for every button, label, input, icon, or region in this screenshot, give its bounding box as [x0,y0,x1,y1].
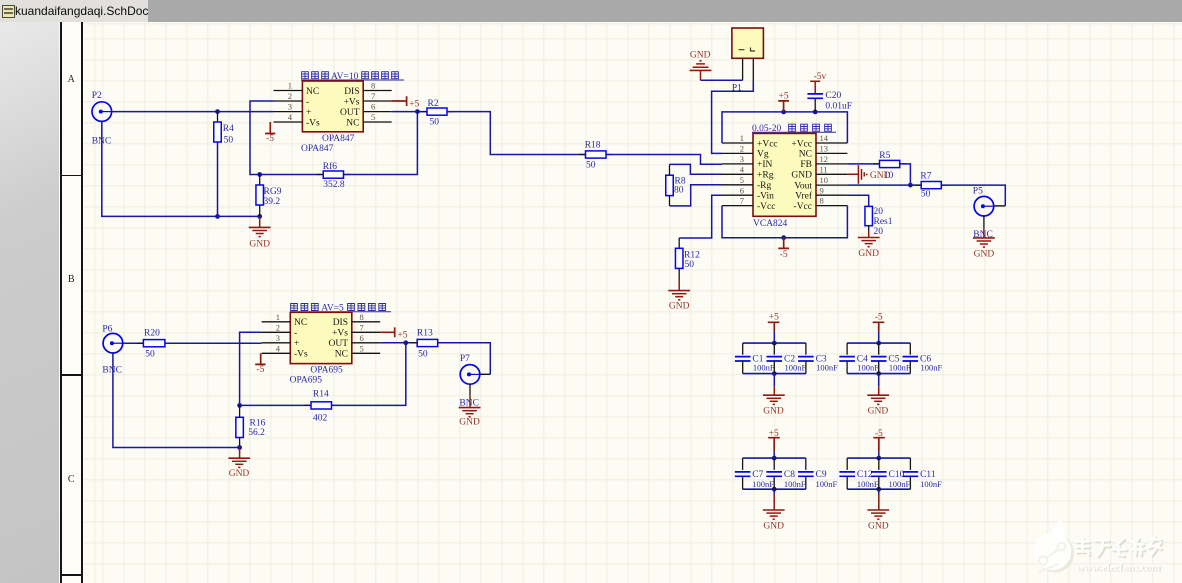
wire R8 bottom to -Rg [670,185,723,206]
U1 pin 5 [346,112,391,128]
wire cap group A rails [743,341,806,376]
capacitor C4 [839,343,879,374]
svg-text:R2: R2 [428,99,439,109]
wire R14 to OUT riser [332,343,406,406]
resistor R18 [579,141,613,171]
resistor R4 [214,112,234,146]
connector P7 BNC [460,365,480,385]
resistor R2 [421,99,454,128]
svg-text:+Vs: +Vs [332,329,348,339]
capacitor C3 [798,343,838,374]
svg-text:352.8: 352.8 [323,180,345,190]
svg-text:-: - [294,329,297,339]
svg-text:100nF: 100nF [889,479,911,489]
svg-text:5: 5 [740,175,744,185]
svg-text:+Vcc: +Vcc [757,139,778,149]
wire Rf6 to feedback riser [344,112,418,175]
U1 pin 2 [274,91,310,107]
ground GND under P7 [459,408,481,428]
wire GND to P1 pin [701,79,743,81]
svg-text:100nF: 100nF [784,479,806,489]
svg-text:10: 10 [820,175,829,185]
zone letter B [62,274,82,285]
svg-text:2: 2 [740,144,744,154]
junction R16 bottom [237,445,242,450]
ground GND cap group C [763,489,785,531]
wire R20 to U3 pin 3 [165,342,262,344]
svg-text:+5: +5 [409,100,419,110]
connector P5 BNC [974,196,994,216]
svg-text:GND: GND [858,249,879,259]
svg-text:-Vcc: -Vcc [794,202,812,212]
svg-text:7: 7 [371,91,375,101]
svg-text:80: 80 [674,186,684,196]
U2 pin 8 [794,196,848,212]
svg-text:NC: NC [799,150,812,160]
P7 ground stem [469,384,471,407]
zone letter A [62,74,82,85]
power -5 at U1 pin 4 [265,122,275,144]
svg-text:GND: GND [459,418,480,428]
wire R7 to P5 [941,185,1005,206]
wire R5 to Vout node [900,164,911,185]
svg-text:OPA847: OPA847 [301,144,334,154]
svg-text:50: 50 [586,161,596,171]
resistor R13 [411,328,445,359]
wire R18 to U2 +IN [606,155,722,165]
svg-text:RG9: RG9 [264,187,282,197]
U1 pin 4 [274,112,321,128]
svg-text:100nF: 100nF [921,362,943,372]
power +5 at U3 pin 7 [380,327,408,340]
svg-text:8: 8 [360,312,364,322]
svg-text:-5: -5 [780,250,788,260]
svg-text:R16: R16 [250,418,266,428]
U2 pin 10 [794,175,847,191]
P5 ground stem [983,216,985,238]
junction -5 tap [781,235,786,240]
svg-text:7: 7 [360,322,364,332]
ground GND cap group A [763,374,785,417]
power -5 cap group D [873,429,885,458]
svg-text:4: 4 [740,164,745,174]
svg-text:-Vs: -Vs [294,350,308,360]
svg-text:+5: +5 [779,92,789,102]
svg-text:GND: GND [669,302,690,312]
svg-text:+: + [294,339,299,349]
svg-text:-Rg: -Rg [757,181,772,191]
svg-text:-: - [306,97,309,107]
junction R14 left [237,403,242,408]
U2 pin 7 [722,196,775,212]
U3 pin 3 [262,333,300,349]
svg-text:OPA695: OPA695 [290,376,323,386]
resistor R12 [675,238,700,270]
wire cap group D rails [847,456,910,492]
power -5 below U2 [778,238,789,260]
svg-text:Vout: Vout [794,181,812,191]
U1 pin 3 [274,102,312,118]
junction bottom rail RG9 [257,214,262,219]
svg-text:1: 1 [740,133,744,143]
U2 pin 2 [722,144,769,160]
svg-text:R14: R14 [313,390,329,400]
wire cap group B rails [847,341,910,376]
connector P1 [732,28,764,58]
connector P2 BNC [92,102,112,122]
svg-text:50: 50 [145,350,155,360]
resistor R20 [137,328,172,359]
wire R8 top to +Rg [670,164,723,174]
svg-text:-5: -5 [875,313,883,323]
resistor R14 [305,390,339,424]
svg-text:50: 50 [430,118,440,128]
wire +Vcc top rail [722,112,847,143]
svg-text:3: 3 [276,333,280,343]
svg-text:50: 50 [921,190,931,200]
svg-text:4: 4 [276,343,281,353]
svg-text:BNC: BNC [459,398,479,408]
junction bottom rail R4 [215,214,220,219]
svg-text:6: 6 [740,185,744,195]
U2 pin 14 [791,133,847,149]
wire -Vin to R12 [679,195,722,238]
ground GND flipped at P1 [690,50,712,80]
wire P1 to U2 Vg [712,81,754,153]
zone divider A/B [60,175,83,177]
svg-text:NC: NC [335,350,348,360]
wire Vout to R7 [847,184,921,186]
svg-text:-5v: -5v [814,72,827,82]
U2 pin 6 [722,185,774,201]
wire R2 to R18 [447,112,586,155]
svg-text:-Vcc: -Vcc [757,202,775,212]
svg-text:GND: GND [791,171,812,181]
capacitor C8 [766,458,806,489]
svg-text:+Vs: +Vs [344,97,360,107]
power -5 at U3 pin 4 [255,353,265,375]
svg-text:R7: R7 [920,172,931,182]
svg-text:7: 7 [740,196,744,206]
svg-text:6: 6 [360,333,364,343]
svg-text:OUT: OUT [340,108,360,118]
wire R4 to bottom rail [217,142,219,216]
title VCA gain (0.05-20倍压控增益) [752,124,836,134]
tab bar [0,0,1182,22]
svg-text:OPA695: OPA695 [310,365,343,375]
resistor R16 [236,405,266,447]
zone letter C [62,474,82,485]
svg-text:GND: GND [868,521,889,531]
ground GND at U2 pin 11 [847,165,890,184]
svg-text:P2: P2 [92,91,102,101]
svg-text:-5: -5 [266,134,274,144]
svg-text:R13: R13 [417,328,433,338]
svg-text:56.2: 56.2 [248,428,265,438]
wire Vref to Res1 [847,195,868,206]
document icon [2,5,15,18]
svg-text:+5: +5 [769,313,779,323]
wire P2 to U1 pin 3 [112,111,274,113]
svg-text:3: 3 [740,154,744,164]
svg-text:GND: GND [690,50,711,60]
svg-text:100nF: 100nF [920,479,942,489]
watermark text dianzifashaoyou (电子发烧友) [1078,538,1162,557]
connector P6 BNC [103,333,123,353]
junction OUT node [415,109,420,114]
amplifier U2 VCA824 body [753,133,816,216]
svg-text:GND: GND [870,171,891,181]
svg-text:Rf6: Rf6 [323,161,338,172]
svg-text:1: 1 [276,312,280,322]
svg-text:8: 8 [371,81,375,91]
svg-text:100nF: 100nF [753,362,775,372]
svg-text:-Vs: -Vs [306,118,320,128]
capacitor C10 [871,458,911,489]
wire U3 pin2 feedback drop [240,332,262,405]
svg-text:-Vin: -Vin [757,192,774,202]
svg-text:FB: FB [800,160,812,170]
title input stage AV=10 (输入级AV=10固定增益) [301,72,404,82]
op-amp U3 OPA695 body [290,312,352,363]
svg-text:100nF: 100nF [752,479,774,489]
U2 pin 3 [722,154,773,170]
svg-text:Vref: Vref [795,191,813,202]
U3 pin 5 [335,343,380,359]
junction OUT node U3 [403,340,408,345]
svg-text:NC: NC [294,318,307,328]
capacitor C5 [871,343,911,374]
svg-text:+5: +5 [397,331,407,341]
junction C20 tap [813,110,818,115]
svg-text:GND: GND [249,239,270,249]
ground GND cap group D [867,489,889,531]
U2 pin 11 [791,164,847,180]
svg-text:0.01uF: 0.01uF [825,102,852,112]
capacitor C2 [767,343,807,374]
resistor R5 [873,151,906,167]
capacitor C12 [839,458,879,489]
svg-text:+Rg: +Rg [757,171,774,181]
U3 pin 4 [262,343,308,359]
U1 pin 8 [344,81,392,97]
U2 pin 1 [722,133,778,149]
svg-text:P6: P6 [102,325,112,335]
svg-text:OUT: OUT [328,339,348,349]
svg-text:+IN: +IN [757,160,773,170]
svg-text:100nF: 100nF [857,479,879,489]
svg-text:OPA847: OPA847 [322,134,355,144]
svg-text:402: 402 [313,414,328,424]
U2 pin 4 [722,164,774,180]
capacitor C9 [798,458,838,489]
zone divider B/C [60,374,83,376]
ground GND under RG9 [249,216,271,249]
svg-text:5: 5 [371,112,375,122]
ground GND under P5 [973,238,995,260]
svg-text:11: 11 [820,164,828,174]
svg-text:Vg: Vg [757,150,769,160]
wire P6 drop [113,353,240,448]
wire U1 OUT [392,111,427,113]
svg-text:100nF: 100nF [816,479,838,489]
svg-text:6: 6 [371,102,375,112]
svg-text:50: 50 [685,260,695,270]
resistor R7 [915,172,948,200]
svg-text:DIS: DIS [344,87,359,97]
svg-text:8: 8 [820,196,824,206]
power -5 cap group B [873,313,885,344]
U3 pin 2 [262,322,297,338]
wire U1 pin2 feedback [250,101,323,175]
capacitor C6 [903,343,943,374]
U1 pin 6 [340,102,392,118]
capacitor C7 [735,458,775,489]
svg-text:GND: GND [763,521,784,531]
resistor Rf6 [317,161,350,190]
watermark url www.elecfans.com [1076,561,1161,574]
capacitor C11 [903,458,942,489]
junction at R4 top [215,109,220,114]
op-amp U1 OPA847 body [302,81,363,132]
wire cap group C rails [743,456,806,492]
U3 pin 1 [262,312,308,328]
wire P6 to R20 [123,342,144,344]
svg-text:100nF: 100nF [857,362,879,372]
ground GND under R16 [228,448,250,480]
power +5 at U1 pin 7 [392,96,420,109]
junction +5 tap [781,110,786,115]
ground GND under R12 [668,268,690,311]
svg-text:50: 50 [418,350,428,360]
P1 pin right [752,58,754,81]
svg-text:100nF: 100nF [816,362,838,372]
svg-text:5: 5 [360,343,364,353]
svg-text:20: 20 [874,207,884,217]
wire R13 to P7 [438,343,491,375]
U2 pin 12 [800,154,847,170]
svg-text:13: 13 [820,144,829,154]
svg-text:NC: NC [306,87,319,97]
watermark logo elecfans [1034,519,1074,573]
U2 pin 5 [722,175,772,191]
svg-text:+: + [306,108,311,118]
svg-text:R4: R4 [223,124,234,134]
wire FB to R5 [847,163,879,165]
U1 pin 7 [344,91,392,107]
junction Vout node [908,183,913,188]
U3 pin 7 [332,322,380,338]
svg-text:100nF: 100nF [889,362,911,372]
svg-text:GND: GND [229,469,250,479]
svg-text:50: 50 [224,135,234,145]
power +5 cap group A [768,313,780,344]
ground GND under Res1 [858,226,880,259]
power +5 cap group C [768,429,780,458]
svg-text:100nF: 100nF [785,362,807,372]
U1 pin 1 [274,81,320,97]
svg-text:GND: GND [763,406,784,416]
svg-text:P7: P7 [460,354,470,364]
resistor Res1 [865,206,893,237]
capacitor C20 [807,91,852,112]
svg-text:C20: C20 [825,91,841,101]
wire -Vcc bottom rail [722,206,847,238]
title output stage AV=5 (输出级AV=5固定增益) [290,304,391,314]
svg-text:DIS: DIS [333,318,348,328]
U2 pin 9 [795,185,847,201]
svg-text:-5: -5 [256,365,264,375]
svg-text:4: 4 [288,112,293,122]
resistor RG9 [256,175,282,217]
svg-text:14: 14 [820,133,829,143]
wire P2 drop [102,121,260,216]
svg-text:R18: R18 [585,141,601,151]
capacitor C1 [735,343,775,374]
svg-text:Res1: Res1 [874,217,893,227]
svg-text:1: 1 [288,81,292,91]
wire to R14 [240,404,311,406]
svg-text:2: 2 [276,322,280,332]
ground GND cap group B [867,374,889,417]
svg-text:39.2: 39.2 [264,197,281,207]
svg-text:NC: NC [346,118,359,128]
power -5v above C20 [810,72,826,94]
svg-text:R5: R5 [879,151,890,161]
wire U3 OUT [380,342,417,344]
svg-text:P5: P5 [973,187,983,197]
svg-text:+Vcc: +Vcc [791,139,812,149]
svg-text:2: 2 [288,91,292,101]
svg-text:20: 20 [874,227,884,237]
U2 pin 13 [799,144,848,160]
junction RG9 top [257,172,262,177]
resistor R8 [666,164,686,206]
svg-text:12: 12 [820,154,829,164]
P1 pin left [742,58,744,80]
svg-text:3: 3 [288,102,292,112]
U3 pin 6 [328,333,380,349]
svg-text:VCA824: VCA824 [753,219,788,229]
svg-text:www.elecfans.com: www.elecfans.com [1076,561,1160,573]
svg-text:R20: R20 [144,328,160,338]
U3 pin 8 [333,312,381,328]
zone divider C/D [60,574,83,576]
tab title [15,4,148,18]
svg-text:GND: GND [974,249,995,259]
svg-text:9: 9 [820,185,824,195]
svg-text:GND: GND [868,406,889,416]
power +5 above U2 [778,92,789,112]
